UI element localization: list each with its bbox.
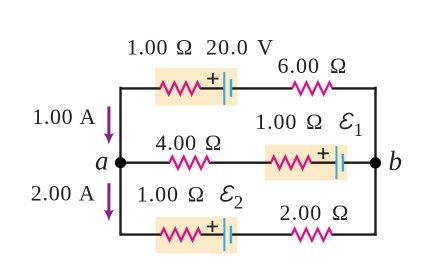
svg-text:1: 1 <box>354 121 363 141</box>
wire bottom branch right segment <box>332 233 377 235</box>
battery emf1 short plate <box>342 154 344 172</box>
resistor 4.00 ohm <box>169 157 209 169</box>
current arrow 1.00 A <box>107 107 110 137</box>
plus sign middle battery <box>318 148 329 159</box>
svg-text:b: b <box>389 146 403 176</box>
wire top branch right segment <box>332 87 377 89</box>
battery emf2 long plate <box>223 218 225 251</box>
svg-text:a: a <box>95 145 109 175</box>
resistor 1.00 ohm middle box <box>271 157 311 169</box>
current arrow 2.00 A <box>107 183 110 213</box>
svg-text:1.00 Ω: 1.00 Ω <box>137 182 205 207</box>
wire top branch between resistor and battery <box>200 87 224 89</box>
svg-text:6.00 Ω: 6.00 Ω <box>278 53 348 78</box>
wire middle branch node a to R4 <box>120 161 170 163</box>
svg-text:4.00 Ω: 4.00 Ω <box>156 130 223 155</box>
wire middle branch battery to node b <box>343 161 376 163</box>
wire right vertical <box>374 87 376 236</box>
highlight box middle (1.00 ohm + emf1 battery) <box>265 145 348 181</box>
node a dot <box>115 157 126 168</box>
battery emf1 long plate <box>336 146 338 179</box>
wire bottom branch battery to R2 <box>231 233 292 235</box>
wire middle branch R4 to box resistor <box>209 161 272 163</box>
wire top branch left segment <box>120 87 161 89</box>
svg-text:1.00 Ω: 1.00 Ω <box>127 35 193 60</box>
svg-text:1.00 Ω: 1.00 Ω <box>255 109 323 134</box>
svg-text:1.00 A: 1.00 A <box>32 104 96 129</box>
plus sign bottom battery <box>207 221 218 232</box>
resistor 6.00 ohm <box>292 82 332 94</box>
svg-text:2.00 Ω: 2.00 Ω <box>280 200 350 225</box>
label emf 2 <box>221 186 233 201</box>
label emf 1 <box>340 113 352 128</box>
battery emf2 short plate <box>230 226 232 244</box>
node b dot <box>370 157 381 168</box>
wire bottom branch left segment <box>120 233 162 235</box>
plus sign top battery <box>207 73 218 84</box>
svg-text:2.00 A: 2.00 A <box>31 180 96 205</box>
wire middle branch resistor to battery <box>311 161 336 163</box>
wire bottom branch resistor to battery <box>201 233 224 235</box>
resistor 1.00 ohm bottom box <box>161 229 201 241</box>
resistor 2.00 ohm <box>292 229 332 241</box>
battery 20.0 V short plate <box>230 79 232 97</box>
svg-text:2: 2 <box>234 192 244 213</box>
wire top branch battery to R6 <box>231 87 293 89</box>
wire left vertical <box>119 87 121 236</box>
resistor 1.00 ohm top box <box>160 82 200 94</box>
highlight box bottom (1.00 ohm + emf2 battery) <box>156 217 238 253</box>
highlight box top (1.00 ohm + 20.0 V battery) <box>155 68 237 106</box>
svg-text:20.0 V: 20.0 V <box>206 35 274 60</box>
battery 20.0 V long plate <box>223 72 225 105</box>
